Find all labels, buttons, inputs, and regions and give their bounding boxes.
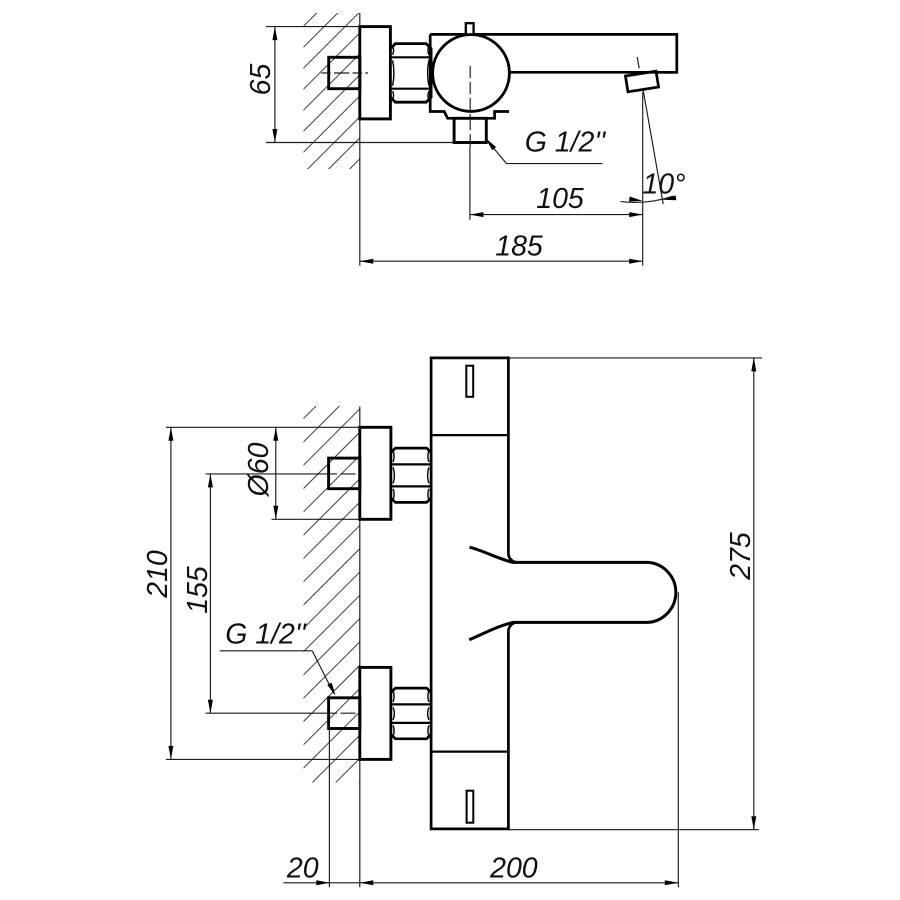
svg-text:185: 185: [495, 230, 543, 262]
svg-text:105: 105: [536, 183, 584, 215]
svg-text:210: 210: [142, 550, 174, 599]
svg-text:Ø60: Ø60: [243, 442, 275, 497]
svg-text:10°: 10°: [642, 169, 685, 201]
svg-text:G 1/2'': G 1/2'': [525, 127, 607, 159]
svg-text:G 1/2'': G 1/2'': [225, 619, 307, 651]
svg-text:65: 65: [245, 64, 277, 96]
svg-text:200: 200: [489, 853, 538, 885]
svg-text:275: 275: [725, 532, 757, 581]
svg-text:20: 20: [286, 853, 319, 885]
svg-text:155: 155: [182, 566, 214, 614]
